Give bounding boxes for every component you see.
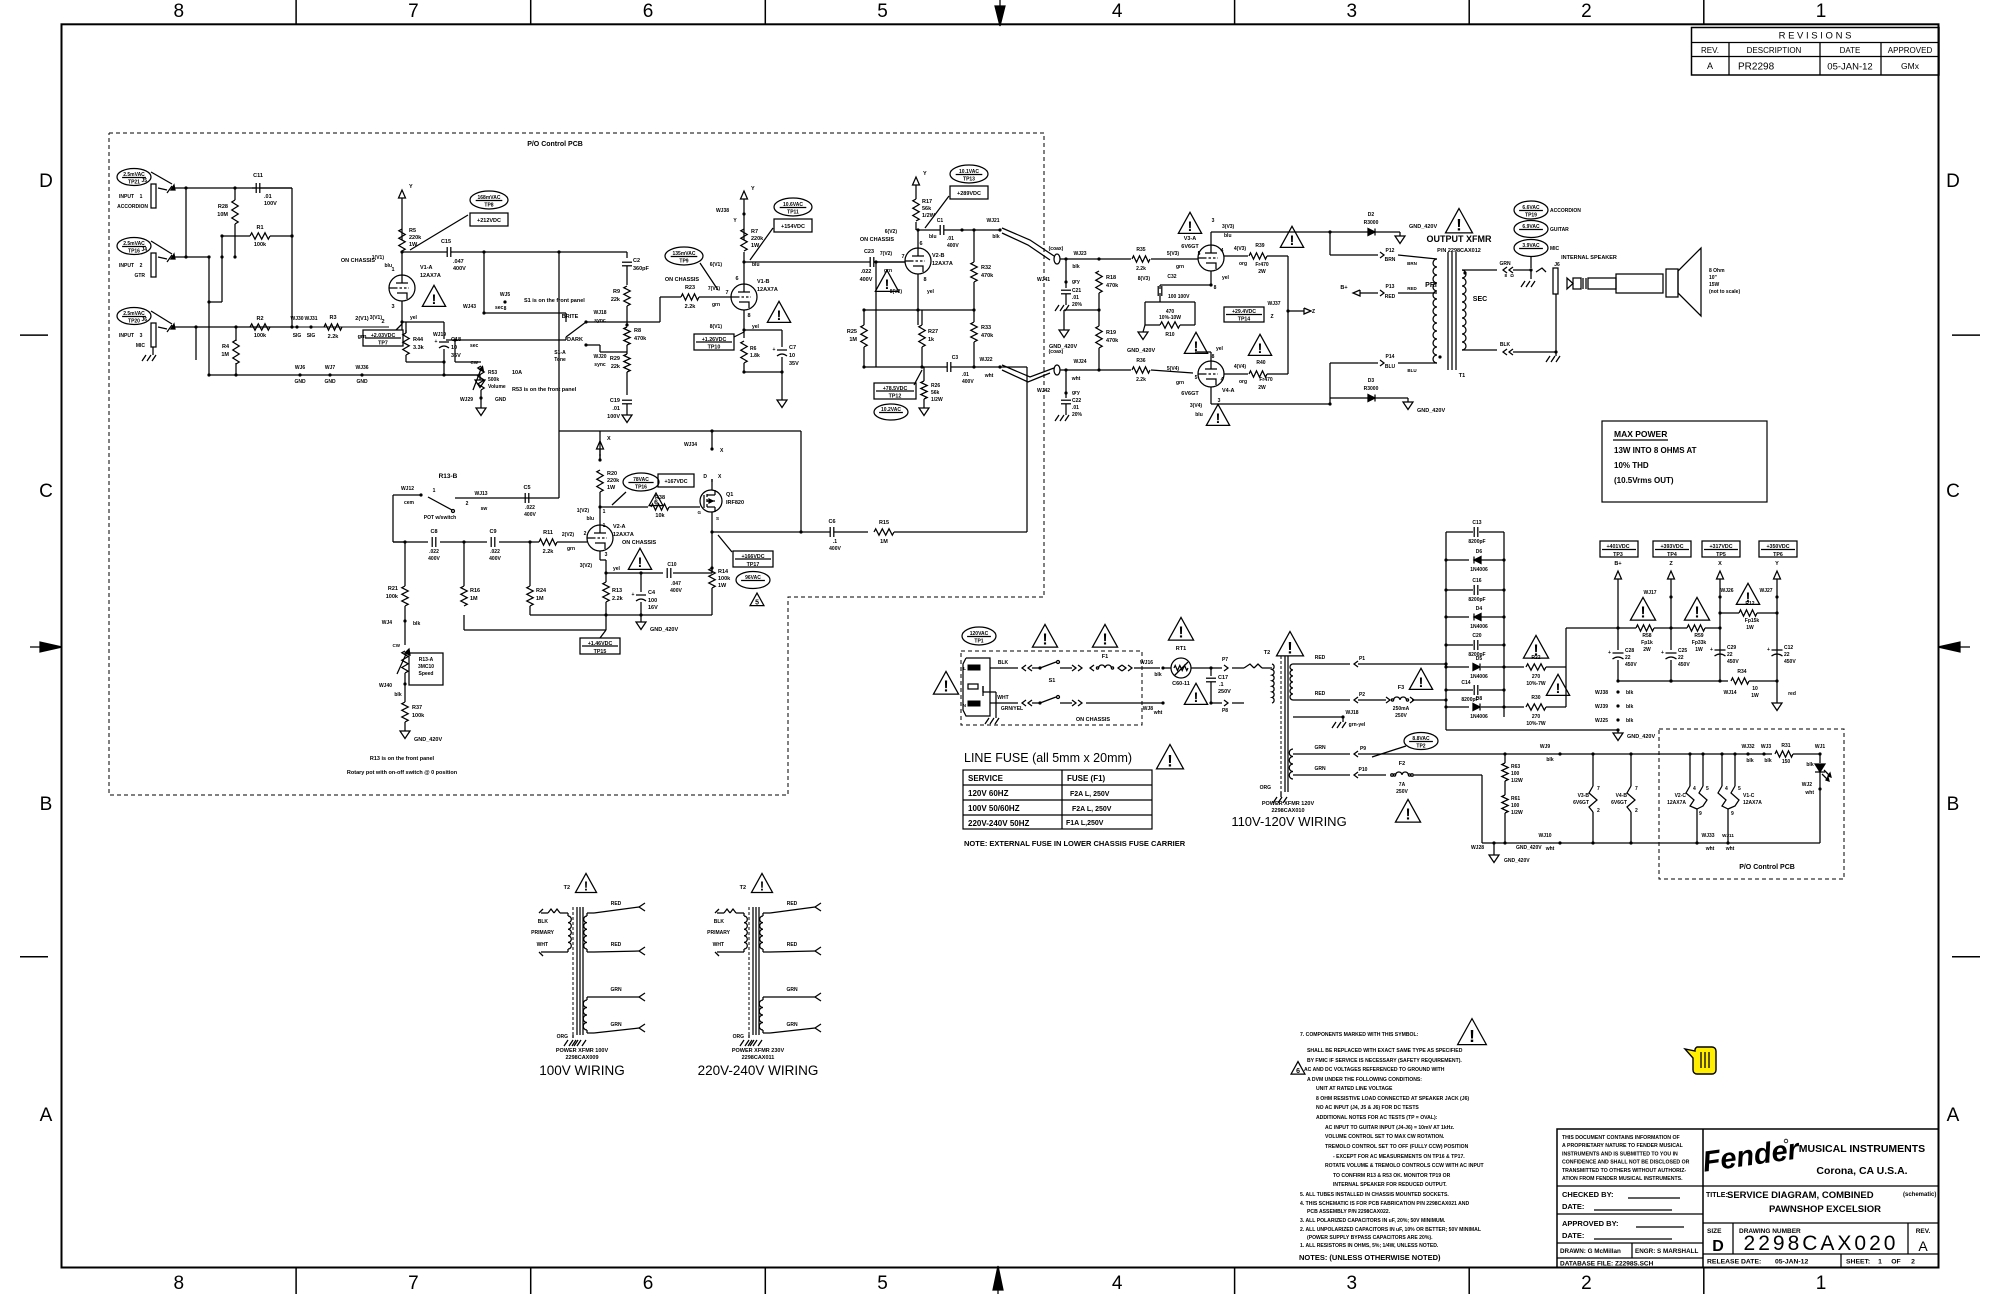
svg-text:.047: .047 (671, 581, 681, 587)
svg-text:2: 2 (466, 501, 469, 507)
svg-text:WJ34: WJ34 (684, 442, 697, 448)
svg-text:!: ! (1042, 632, 1047, 649)
Fender logo (1701, 1133, 1803, 1178)
svg-text:1N4006: 1N4006 (1470, 674, 1488, 680)
svg-text:VOLUME CONTROL SET TO MAX CW R: VOLUME CONTROL SET TO MAX CW ROTATION. (1325, 1134, 1445, 1140)
coax cable lower (1002, 349, 1087, 382)
svg-text:blk: blk (1072, 264, 1079, 270)
diode D8 1N4006 (1444, 696, 1505, 720)
svg-text:TP4: TP4 (1667, 552, 1677, 558)
company name (1799, 1143, 1925, 1177)
svg-text:WJ14: WJ14 (1723, 690, 1736, 696)
wire coax to V4-A (1060, 368, 1193, 373)
svg-text:270: 270 (1532, 674, 1541, 680)
warning triangle V3-A top (1178, 212, 1201, 234)
svg-text:+: + (773, 347, 776, 353)
svg-text:blu: blu (752, 262, 760, 268)
node X arrow tremolo (597, 436, 612, 456)
svg-text:2.2k: 2.2k (685, 304, 697, 310)
svg-text:R19: R19 (1106, 330, 1116, 336)
resistor R3 2.2k (324, 315, 385, 340)
svg-text:.022: .022 (525, 505, 535, 511)
svg-text:MIC: MIC (136, 343, 146, 349)
svg-text:7: 7 (408, 1, 419, 22)
svg-text:1: 1 (1816, 1273, 1827, 1294)
svg-text:WJ13: WJ13 (474, 491, 487, 497)
svg-text:R35: R35 (1136, 247, 1145, 253)
svg-text:470k: 470k (981, 333, 994, 339)
svg-text:grn-yel: grn-yel (1349, 722, 1366, 728)
svg-text:NOTE: EXTERNAL FUSE IN LOW: NOTE: EXTERNAL FUSE IN LOWER CHASSIS FUS… (964, 839, 1186, 848)
resistor R32 470k (971, 230, 994, 310)
svg-text:2W: 2W (1643, 647, 1651, 653)
resistor R33 470k (971, 310, 994, 369)
svg-text:T2: T2 (564, 885, 570, 891)
svg-text:2.2k: 2.2k (543, 549, 555, 555)
svg-text:TP19: TP19 (1525, 213, 1537, 219)
svg-text:blk: blk (1154, 672, 1161, 678)
svg-text:1(V2): 1(V2) (577, 508, 590, 514)
ground R26 (919, 408, 929, 416)
test point 3.9VAC oval (1514, 240, 1560, 269)
svg-text:TITLE:: TITLE: (1706, 1192, 1728, 1199)
node Z arrow up (1668, 571, 1675, 630)
svg-text:100V WIRING: 100V WIRING (539, 1063, 625, 1078)
svg-text:LINE FUSE (all 5mm x 20mm: LINE FUSE (all 5mm x 20mm) (964, 751, 1132, 765)
MOSFET Q1 IRF820 (697, 474, 744, 521)
ground GND_420V heater left (0, 0, 1, 1)
wire V3-A cathode network C32 R10 (1138, 271, 1230, 338)
svg-text:WJ24: WJ24 (1073, 359, 1086, 365)
svg-text:WJ1: WJ1 (1815, 744, 1826, 750)
svg-text:F2A L, 250V: F2A L, 250V (1070, 791, 1110, 798)
resistor R16 1M (461, 547, 480, 606)
svg-text:yel: yel (752, 324, 760, 330)
svg-text:BLK: BLK (1500, 342, 1511, 348)
svg-text:C7: C7 (789, 345, 796, 351)
svg-text:1W: 1W (409, 242, 418, 248)
resistor R17 56k 1/2W (913, 192, 936, 230)
svg-text:8: 8 (1214, 285, 1217, 291)
svg-text:1k: 1k (928, 337, 935, 343)
svg-text:GRN: GRN (1499, 261, 1511, 267)
svg-text:C25: C25 (1678, 648, 1687, 654)
svg-text:GND_420V: GND_420V (1049, 344, 1077, 350)
svg-text:220k: 220k (409, 235, 422, 241)
chassis ground at input jacks (142, 347, 156, 361)
ground R37 (400, 731, 442, 743)
svg-text:ON CHASSIS: ON CHASSIS (860, 237, 895, 243)
capacitor C23 .022 400V (744, 249, 905, 283)
wire T2 GRN leads (1293, 745, 1482, 778)
svg-text:!: ! (1188, 218, 1193, 234)
svg-text:ON CHASSIS: ON CHASSIS (1076, 717, 1111, 723)
svg-text:6V6GT: 6V6GT (1611, 800, 1627, 806)
svg-text:2: 2 (1581, 1, 1592, 22)
svg-text:1M: 1M (849, 337, 857, 343)
test point TP9 oval (665, 247, 718, 290)
release date row (1707, 1259, 1915, 1266)
svg-text:TP11: TP11 (787, 210, 799, 216)
wire R2 to V1 grid (270, 188, 389, 329)
svg-text:R23: R23 (685, 285, 695, 291)
svg-text:R37: R37 (412, 705, 422, 711)
svg-text:C19: C19 (610, 398, 620, 404)
svg-text:gry: gry (1072, 390, 1080, 396)
svg-text:.1: .1 (1219, 682, 1224, 688)
svg-text:NOTES: (UNLESS OTHERWISE NOTE: NOTES: (UNLESS OTHERWISE NOTED) (1299, 1253, 1441, 1262)
resistor R18 470k (1096, 271, 1119, 312)
svg-text:ORG: ORG (733, 1034, 745, 1040)
wire T2 center tap WJ18 (1293, 710, 1366, 728)
svg-text:C22: C22 (1072, 398, 1081, 404)
svg-text:P/O Control PCB: P/O Control PCB (527, 141, 583, 148)
proprietary text (1562, 1135, 1690, 1182)
title text (1706, 1190, 1936, 1215)
svg-text:V1-A: V1-A (420, 265, 433, 271)
notes text block (1299, 1032, 1485, 1262)
svg-text:P13: P13 (1386, 284, 1395, 290)
svg-text:BLK: BLK (714, 919, 725, 925)
svg-text:WJ28: WJ28 (1471, 845, 1484, 851)
svg-text:FUSE (F1): FUSE (F1) (1067, 774, 1106, 783)
svg-text:400V: 400V (860, 277, 873, 283)
svg-text:+: + (1608, 650, 1611, 656)
svg-text:D8: D8 (1476, 696, 1483, 702)
svg-text:100: 100 (1511, 803, 1520, 809)
svg-text:WJ3: WJ3 (1761, 744, 1772, 750)
svg-text:J6: J6 (141, 317, 147, 323)
svg-text:X: X (607, 436, 611, 442)
svg-text:10%-10W: 10%-10W (1159, 315, 1181, 321)
svg-text:wht: wht (1071, 376, 1081, 382)
svg-text:!: ! (1469, 1026, 1475, 1046)
resistor R22 270 10%-7W (1504, 655, 1566, 687)
svg-text:APPROVED: APPROVED (1888, 46, 1933, 55)
svg-text:7. COMPONENTS MARKED WITH THI: 7. COMPONENTS MARKED WITH THIS SYMBOL: (1300, 1032, 1419, 1038)
test point TP16 oval (117, 238, 172, 255)
warning triangle F2 (1395, 799, 1420, 823)
svg-text:400V: 400V (962, 379, 974, 385)
svg-text:400V: 400V (829, 546, 841, 552)
svg-text:100k: 100k (718, 576, 731, 582)
zone numbers bottom (174, 1273, 1827, 1294)
resistor R5 220k 1W (399, 228, 422, 251)
svg-text:MAX POWER: MAX POWER (1614, 429, 1667, 439)
svg-text:A PROPRIETARY NATURE TO FENDER: A PROPRIETARY NATURE TO FENDER MUSICAL (1562, 1143, 1684, 1149)
svg-text:WJ8: WJ8 (1143, 706, 1154, 712)
svg-text:(10.5Vrms OUT): (10.5Vrms OUT) (1614, 476, 1674, 485)
svg-text:CONFIDENCE AND SHALL NOT BE DI: CONFIDENCE AND SHALL NOT BE DISCLOSED OR (1562, 1160, 1690, 1166)
svg-text:R21: R21 (388, 586, 398, 592)
resistor R40 Fr470 2W (1224, 311, 1288, 391)
svg-text:C1: C1 (937, 218, 944, 224)
note R13 front panel (347, 756, 458, 776)
svg-text:BRN: BRN (1407, 261, 1417, 266)
svg-text:C9: C9 (489, 529, 496, 535)
resistor R59 Fp33k 1W (1687, 625, 1722, 653)
svg-text:4: 4 (1725, 786, 1728, 792)
zone ticks top (296, 0, 1704, 24)
svg-text:+: + (1661, 650, 1664, 656)
svg-text:R8: R8 (634, 328, 641, 334)
ground bus GND wire (209, 365, 480, 385)
svg-text:100: 100 (1511, 771, 1520, 777)
resistor R34 10 1W (1720, 669, 1796, 699)
chassis ground speaker return (1546, 352, 1560, 362)
svg-text:R16: R16 (470, 588, 480, 594)
svg-text:A: A (1707, 61, 1713, 71)
diode D3 R3000 (1330, 378, 1408, 404)
svg-text:R17: R17 (922, 199, 932, 205)
svg-text:TP12: TP12 (889, 394, 902, 400)
svg-text:blk: blk (394, 692, 401, 698)
svg-text:R4: R4 (222, 344, 230, 350)
svg-text:R28: R28 (218, 204, 228, 210)
svg-text:V1-C: V1-C (1743, 793, 1755, 799)
svg-text:DRAWN: G McMillan: DRAWN: G McMillan (1560, 1248, 1621, 1255)
svg-text:1W: 1W (607, 485, 616, 491)
node WJ22 (979, 357, 993, 379)
center arrow right (1938, 642, 1970, 652)
svg-text:RED: RED (611, 901, 622, 907)
ground Y rail (1772, 681, 1782, 711)
svg-text:C16: C16 (1472, 578, 1481, 584)
svg-text:blu: blu (1224, 233, 1232, 239)
svg-text:POWER XFMR 120V: POWER XFMR 120V (1262, 801, 1315, 807)
svg-text:C20: C20 (1472, 633, 1481, 639)
svg-text:+: + (1710, 647, 1713, 653)
svg-text:.01: .01 (1072, 295, 1079, 301)
svg-text:WJ6: WJ6 (295, 365, 306, 371)
svg-text:ORG: ORG (557, 1034, 569, 1040)
svg-text:(POWER SUPPLY BYPASS CAPACITOR: (POWER SUPPLY BYPASS CAPACITORS ARE 20%)… (1307, 1235, 1433, 1241)
svg-text:blu: blu (385, 263, 393, 269)
svg-text:2: 2 (1911, 1259, 1915, 1266)
capacitor C19 .01 100V (607, 398, 632, 420)
svg-text:.01: .01 (947, 236, 954, 242)
svg-text:wht: wht (1705, 846, 1715, 852)
capacitor C6 .1 400V (801, 519, 868, 552)
svg-text:8: 8 (174, 1, 185, 22)
wire R15 to phase splitter (1000, 367, 1027, 532)
svg-text:6(V2): 6(V2) (885, 229, 898, 235)
svg-text:S1-A: S1-A (554, 350, 566, 356)
revisions table (1692, 28, 1940, 76)
svg-text:8: 8 (174, 1273, 185, 1294)
fuse F2 7A 250V (1391, 761, 1482, 795)
svg-text:WJ16: WJ16 (1140, 660, 1153, 666)
LED (1802, 754, 1831, 843)
svg-text:ORG: ORG (1260, 785, 1272, 791)
ground R10 (1127, 332, 1155, 354)
svg-text:C32: C32 (1167, 274, 1176, 280)
wire tremolo cathode (580, 551, 643, 582)
svg-text:!: ! (943, 679, 948, 696)
symbol triangle note 6 (1291, 1062, 1305, 1075)
svg-text:1/2W: 1/2W (931, 397, 943, 403)
svg-text:!: ! (1456, 216, 1461, 234)
svg-text:INSTRUMENTS AND IS SUBMITTED T: INSTRUMENTS AND IS SUBMITTED TO YOU IN (1562, 1151, 1678, 1157)
svg-text:DATE:: DATE: (1562, 1231, 1584, 1240)
svg-text:1M: 1M (536, 596, 544, 602)
svg-text:100k: 100k (254, 333, 267, 339)
svg-text:R13-B: R13-B (439, 473, 458, 480)
svg-text:4: 4 (1693, 786, 1696, 792)
svg-text:450V: 450V (1678, 662, 1690, 668)
svg-text:TRANSMITTED TO OTHERS WITHOUT: TRANSMITTED TO OTHERS WITHOUT AUTHORIZ- (1562, 1168, 1686, 1174)
svg-text:A: A (40, 1105, 53, 1126)
fuse F1 (1096, 654, 1160, 671)
svg-text:R11: R11 (543, 530, 553, 536)
svg-text:12AX7A: 12AX7A (1667, 800, 1686, 806)
svg-text:R30: R30 (1531, 695, 1540, 701)
tube V2-A 12AX7A (584, 523, 657, 558)
svg-text:G: G (697, 510, 701, 515)
svg-text:B+: B+ (1340, 285, 1347, 291)
warning triangle OUTPUT XFMR (1445, 208, 1472, 234)
svg-text:470k: 470k (1106, 338, 1119, 344)
svg-text:R2: R2 (256, 316, 263, 322)
svg-text:R10: R10 (1165, 332, 1174, 338)
wire tremolo top loop (559, 429, 803, 533)
svg-text:J4: J4 (141, 247, 147, 253)
svg-text:blk: blk (1806, 762, 1813, 768)
svg-text:C13: C13 (1472, 520, 1481, 526)
svg-text:PAWNSHOP EXCELSIOR: PAWNSHOP EXCELSIOR (1769, 1204, 1881, 1215)
svg-text:C4: C4 (648, 590, 656, 596)
resistor R26 56k 1/2W (921, 367, 943, 408)
svg-text:2W: 2W (1258, 385, 1266, 391)
svg-text:D5: D5 (1476, 656, 1483, 662)
svg-text:D4: D4 (1476, 606, 1483, 612)
capacitor C25 22 450V (1661, 628, 1690, 683)
svg-text:20%: 20% (1072, 412, 1083, 418)
svg-text:TP16: TP16 (635, 485, 647, 491)
capacitor C14 8200pF (1444, 680, 1505, 703)
svg-text:12AX7A: 12AX7A (1743, 800, 1762, 806)
svg-text:gry: gry (1072, 279, 1080, 285)
svg-text:3(V2): 3(V2) (580, 563, 593, 569)
svg-text:SERVICE DIAGRAM, COMBINED: SERVICE DIAGRAM, COMBINED (1727, 1190, 1874, 1201)
svg-text:1M: 1M (880, 539, 888, 545)
svg-text:C11: C11 (253, 173, 263, 179)
svg-text:C2: C2 (633, 258, 640, 264)
warning triangle RT1 (1168, 617, 1193, 641)
svg-text:400V: 400V (524, 512, 536, 518)
resistor R12 Fp15k 1W (1720, 601, 1777, 631)
ground C19 (622, 415, 632, 423)
node WJ38 WJ39 WJ25 (1595, 690, 1634, 724)
potentiometer R53 500k Volume (455, 360, 577, 398)
svg-text:3: 3 (1347, 1273, 1358, 1294)
svg-text:!: ! (1405, 807, 1410, 824)
svg-text:R24: R24 (536, 588, 547, 594)
node WJ27 (1759, 588, 1778, 599)
node WJ16 (1140, 660, 1165, 678)
svg-text:GND_420V: GND_420V (1409, 224, 1437, 230)
wire V3-A plate (1211, 218, 1332, 245)
svg-text:5(V4): 5(V4) (1167, 366, 1180, 372)
svg-text:1/2W: 1/2W (1511, 778, 1523, 784)
svg-text:D2: D2 (1368, 212, 1375, 218)
jack J4 INPUT 2 GTR (119, 247, 175, 279)
svg-text:GND_420V: GND_420V (1627, 734, 1655, 740)
svg-text:WHT: WHT (713, 942, 724, 948)
svg-text:.01: .01 (264, 194, 272, 200)
svg-text:S1 is on the front panel: S1 is on the front panel (524, 298, 585, 304)
svg-text:P7: P7 (1222, 657, 1228, 663)
capacitor C17 .1 250V (1206, 668, 1231, 705)
node WJ28 ground (1471, 841, 1542, 864)
chassis ground speaker hot (1521, 281, 1535, 287)
svg-text:WJ38: WJ38 (1595, 690, 1608, 696)
svg-text:INPUT: INPUT (119, 194, 134, 200)
svg-text:470k: 470k (981, 273, 994, 279)
resistor R14 100k 1W (709, 568, 731, 615)
P/O Control PCB dashed outline (109, 133, 1044, 795)
svg-text:yel: yel (410, 315, 418, 321)
svg-text:220V-240V 50HZ: 220V-240V 50HZ (968, 819, 1029, 828)
svg-text:6: 6 (643, 1273, 654, 1294)
svg-text:10%-7W: 10%-7W (1526, 721, 1545, 727)
svg-text:100k: 100k (412, 713, 425, 719)
yellow highlight callout (1685, 1047, 1716, 1074)
svg-text:GND: GND (324, 379, 336, 385)
svg-text:5: 5 (1195, 375, 1198, 381)
svg-text:Fr470: Fr470 (1259, 377, 1273, 383)
wire V4-A cathode yel (1195, 346, 1224, 361)
svg-text:GRN: GRN (786, 1022, 798, 1028)
svg-text:GRN/YEL: GRN/YEL (1001, 706, 1023, 712)
jack J5 INPUT 1 ACCORDION (117, 178, 175, 210)
svg-text:WJ43: WJ43 (463, 304, 476, 310)
resistor R28 10M (217, 186, 238, 258)
tube V1-B 12AX7A (665, 276, 778, 319)
svg-text:!: ! (1167, 752, 1172, 770)
node B+ arrow up (1615, 571, 1622, 630)
node WJ29 (460, 396, 507, 408)
svg-text:GRN: GRN (610, 1022, 622, 1028)
svg-text:GND: GND (356, 379, 368, 385)
svg-text:4(V4): 4(V4) (1234, 364, 1247, 370)
tube V2-B 12AX7A (860, 237, 953, 283)
heater V1-C 12AX7A (1718, 754, 1762, 843)
svg-text:R39: R39 (1255, 243, 1264, 249)
svg-text:500k: 500k (488, 377, 499, 383)
svg-text:10": 10" (1709, 275, 1718, 281)
svg-text:05-JAN-12: 05-JAN-12 (1775, 1259, 1808, 1266)
svg-text:WJ21: WJ21 (986, 218, 999, 224)
svg-text:L: L (963, 666, 966, 671)
svg-text:Corona, CA U.S.A.: Corona, CA U.S.A. (1816, 1165, 1907, 1177)
test point TP8 oval and +212VDC (410, 191, 508, 250)
svg-text:WJ2: WJ2 (1802, 782, 1813, 788)
svg-text:R7: R7 (751, 229, 758, 235)
svg-text:450V: 450V (1625, 662, 1637, 668)
svg-text:2.2k: 2.2k (612, 596, 624, 602)
wire heater top bus (1482, 744, 1772, 763)
svg-text:NO AC INPUT (J4, J5 & J6) FOR: NO AC INPUT (J4, J5 & J6) FOR DC TESTS (1316, 1105, 1419, 1111)
svg-text:DARK: DARK (567, 337, 583, 343)
svg-text:WJ12: WJ12 (401, 486, 414, 492)
svg-text:PRIMARY: PRIMARY (531, 930, 555, 936)
coax cable upper (1002, 228, 1087, 270)
svg-text:TP6: TP6 (1773, 552, 1783, 558)
svg-text:WJ20: WJ20 (593, 354, 606, 360)
svg-text:C12: C12 (1784, 645, 1793, 651)
svg-text:TP15: TP15 (594, 649, 607, 655)
